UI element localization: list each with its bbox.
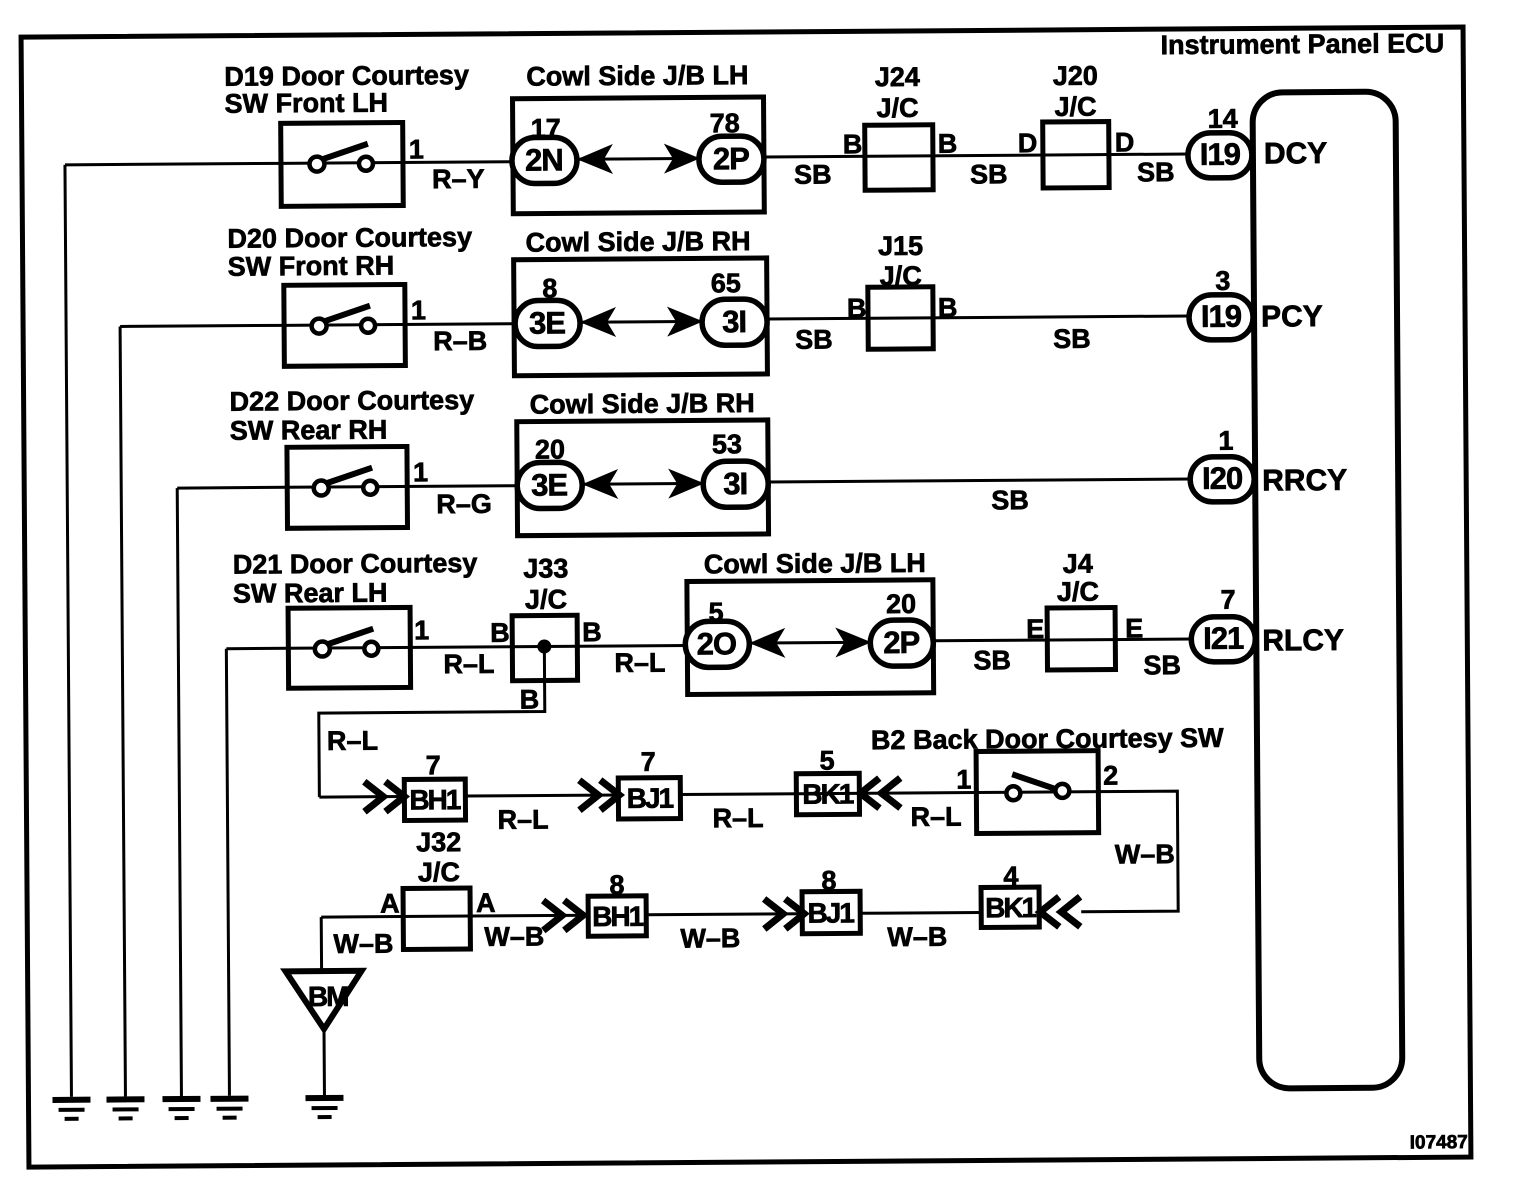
- svg-text:3I: 3I: [722, 304, 746, 339]
- svg-text:I20: I20: [1202, 461, 1242, 496]
- junction connector J32 box: [403, 888, 470, 949]
- svg-text:Cowl Side J/B RH: Cowl Side J/B RH: [530, 388, 755, 420]
- switch D20 box: [284, 284, 406, 366]
- svg-text:J24: J24: [875, 62, 920, 92]
- wire BJ1 to BK1 lower: [860, 911, 981, 915]
- svg-text:D22 Door Courtesy: D22 Door Courtesy: [230, 385, 475, 417]
- wire between 2O and 2P row4: [749, 641, 871, 645]
- connector BJ1 box R-L row: [618, 778, 680, 819]
- wire through B2: [976, 790, 1098, 794]
- wire left of J32 to BM drop: [321, 915, 590, 917]
- svg-text:SW Rear RH: SW Rear RH: [230, 415, 388, 446]
- switch D20 lever: [325, 306, 370, 321]
- junction block Cowl Side J/B RH row2 box: [514, 258, 768, 376]
- svg-text:PCY: PCY: [1261, 300, 1323, 333]
- svg-text:J/C: J/C: [418, 857, 460, 887]
- wire row1 left bus vertical to ground: [65, 165, 72, 1097]
- wire BM drop vertical: [320, 917, 323, 971]
- svg-text:2P: 2P: [713, 141, 749, 176]
- svg-text:R–L: R–L: [910, 802, 961, 832]
- switch D21 contact left: [315, 642, 330, 657]
- svg-text:3E: 3E: [529, 305, 565, 340]
- svg-text:7: 7: [641, 747, 656, 777]
- svg-text:W–B: W–B: [887, 922, 947, 952]
- switch B2 contact right: [1055, 784, 1069, 798]
- svg-text:Cowl Side J/B RH: Cowl Side J/B RH: [525, 226, 750, 258]
- ECU connector I21 oval: [1191, 617, 1255, 662]
- svg-text:1: 1: [1218, 426, 1233, 456]
- connector 2P oval row4: [870, 620, 933, 666]
- wire between 3E and 3I row3: [582, 482, 704, 486]
- wire row3 left bus horizontal: [177, 486, 287, 490]
- junction dot inside J33: [537, 639, 551, 653]
- svg-text:14: 14: [1208, 104, 1238, 134]
- svg-text:I07487: I07487: [1410, 1132, 1468, 1153]
- svg-text:B: B: [582, 617, 602, 647]
- svg-text:J/C: J/C: [1054, 92, 1096, 122]
- connector arrow right row1: [664, 143, 700, 173]
- svg-text:3I: 3I: [723, 466, 747, 501]
- ground G1: [52, 1100, 90, 1119]
- wire row1 through switch: [282, 162, 513, 164]
- connector arrow right row3: [668, 468, 704, 498]
- wire row4 from J/B to ECU: [933, 639, 1192, 641]
- inline connector chevrons after BK1 lower: [1040, 897, 1080, 927]
- svg-text:BH1: BH1: [409, 784, 461, 815]
- connector BK1 box R-L row: [796, 773, 859, 814]
- wire row3 through switch: [287, 486, 517, 488]
- wire from J33 down to back-door branch: [318, 647, 545, 798]
- wire between 3E and 3I row2: [580, 320, 703, 324]
- switch D21 lever: [328, 629, 373, 644]
- junction block Cowl Side J/B LH row1 box: [513, 97, 765, 214]
- inline connector chevrons before BJ1: [579, 780, 619, 810]
- switch D20 contact left: [312, 319, 327, 334]
- svg-text:W–B: W–B: [333, 929, 393, 959]
- svg-text:7: 7: [426, 750, 441, 780]
- svg-text:2: 2: [1103, 761, 1118, 791]
- inline connector chevrons after BK1: [860, 778, 900, 808]
- svg-text:1: 1: [414, 615, 429, 645]
- switch D20 contact right: [361, 319, 375, 333]
- svg-text:SW Front RH: SW Front RH: [228, 251, 395, 282]
- connector arrow right row2: [667, 306, 703, 336]
- junction connector J20 box: [1043, 122, 1109, 188]
- svg-text:1: 1: [413, 457, 428, 487]
- wire R-L row into BH1: [319, 795, 405, 799]
- wire BH1 to BJ1 lower: [646, 914, 803, 915]
- switch D22 box: [287, 446, 408, 528]
- connector 2P oval: [699, 136, 764, 182]
- svg-text:SW Front LH: SW Front LH: [224, 88, 388, 119]
- svg-text:W–B: W–B: [680, 923, 740, 953]
- svg-text:B: B: [843, 129, 863, 159]
- connector BK1 box W-B row: [981, 887, 1039, 927]
- wire row2 from J/B to ECU: [767, 316, 1190, 319]
- wire between 2N and 2P: [577, 157, 700, 161]
- svg-text:J15: J15: [878, 231, 923, 261]
- svg-text:BH1: BH1: [592, 901, 644, 932]
- wire row3 left bus vertical to ground: [177, 488, 181, 1096]
- ECU connector I19 pin 14 oval: [1188, 133, 1252, 178]
- svg-text:BJ1: BJ1: [627, 783, 674, 814]
- svg-text:J/C: J/C: [1057, 577, 1099, 607]
- svg-text:D: D: [1018, 128, 1038, 158]
- svg-text:3E: 3E: [531, 467, 567, 502]
- inline connector chevrons before BJ1 lower: [764, 899, 804, 929]
- svg-text:SB: SB: [794, 159, 832, 189]
- connector BH1 box R-L row: [404, 779, 465, 820]
- connector arrow left row1: [577, 144, 613, 174]
- svg-text:1: 1: [409, 134, 424, 164]
- connector BH1 box W-B row: [588, 896, 646, 936]
- svg-text:J/C: J/C: [876, 93, 918, 123]
- svg-text:53: 53: [712, 429, 742, 459]
- svg-text:BK1: BK1: [802, 778, 854, 809]
- wire BM triangle to ground: [322, 1029, 325, 1095]
- ground G5 BM: [305, 1098, 343, 1117]
- svg-text:A: A: [476, 888, 496, 918]
- junction connector J24 box: [865, 125, 933, 190]
- switch D19 contact left: [309, 157, 324, 172]
- svg-text:2N: 2N: [525, 142, 563, 177]
- svg-text:20: 20: [886, 589, 916, 619]
- wire row1 left bus horizontal: [65, 163, 282, 165]
- svg-text:1: 1: [956, 765, 971, 795]
- ECU connector I20 oval: [1190, 457, 1254, 502]
- junction connector J33 box: [512, 615, 577, 680]
- svg-text:SB: SB: [1053, 324, 1091, 354]
- switch D19 box: [281, 122, 404, 206]
- svg-text:J4: J4: [1063, 549, 1093, 579]
- wire row4 left bus horizontal: [226, 647, 288, 650]
- svg-text:D20 Door Courtesy: D20 Door Courtesy: [227, 222, 472, 254]
- wire row3 from J/B to ECU: [768, 479, 1191, 482]
- svg-text:J20: J20: [1053, 61, 1098, 91]
- wire row1 from J/B to ECU: [764, 154, 1189, 157]
- svg-text:W–B: W–B: [1115, 839, 1175, 869]
- junction connector J4 box: [1047, 608, 1115, 670]
- svg-text:1: 1: [411, 295, 426, 325]
- svg-text:D21 Door Courtesy: D21 Door Courtesy: [233, 548, 478, 580]
- connector arrow left row3: [582, 469, 618, 499]
- switch B2 lever: [1012, 774, 1055, 789]
- wire BJ1 to BK1: [680, 792, 976, 794]
- svg-text:J32: J32: [416, 827, 461, 857]
- ground G2: [106, 1099, 144, 1118]
- wire from B2 pin2 down to W-B row: [1080, 791, 1178, 912]
- svg-text:J33: J33: [523, 553, 568, 583]
- connector 2N oval: [512, 137, 577, 183]
- svg-text:R–L: R–L: [712, 803, 763, 833]
- ECU body U1: [1252, 92, 1402, 1089]
- switch B2 contact left: [1006, 786, 1020, 800]
- svg-text:Cowl Side J/B LH: Cowl Side J/B LH: [526, 60, 748, 92]
- switch D19 lever: [323, 144, 368, 159]
- svg-text:R–L: R–L: [497, 804, 548, 834]
- switch D19 contact right: [359, 157, 373, 171]
- svg-text:2P: 2P: [883, 625, 919, 660]
- ground G4: [210, 1099, 248, 1118]
- svg-text:R–Y: R–Y: [432, 164, 485, 194]
- inline connector chevrons before BH1 lower: [543, 900, 583, 930]
- switch D22 contact right: [363, 481, 377, 495]
- wire row4 left bus vertical to ground: [226, 649, 229, 1096]
- svg-text:SW Rear LH: SW Rear LH: [233, 578, 388, 609]
- wire row2 left bus vertical to ground: [120, 326, 125, 1096]
- switch D21 box: [288, 607, 411, 688]
- svg-text:I19: I19: [1200, 137, 1241, 172]
- connector 3I oval row2: [702, 299, 767, 345]
- svg-text:B: B: [938, 129, 958, 159]
- wire row2 left bus horizontal: [120, 325, 284, 326]
- svg-text:B: B: [490, 618, 510, 648]
- junction block Cowl Side J/B RH row3 box: [517, 420, 769, 536]
- svg-text:R–B: R–B: [433, 326, 487, 356]
- svg-text:I19: I19: [1201, 299, 1242, 334]
- svg-text:RLCY: RLCY: [1262, 624, 1344, 658]
- inline connector chevrons before BH1 row R-L: [364, 781, 404, 811]
- connector 3E oval row3: [517, 462, 582, 508]
- svg-text:SB: SB: [991, 485, 1029, 515]
- connector arrow right row4: [835, 627, 871, 657]
- svg-text:R–G: R–G: [436, 489, 492, 519]
- switch B2 box: [976, 751, 1099, 834]
- ground triangle BM: [286, 971, 362, 1030]
- svg-text:BK1: BK1: [985, 892, 1037, 923]
- connector arrow left row4: [749, 628, 785, 658]
- svg-text:B: B: [847, 293, 867, 323]
- svg-text:E: E: [1026, 614, 1044, 644]
- svg-text:R–L: R–L: [614, 648, 665, 678]
- svg-text:SB: SB: [970, 159, 1008, 189]
- svg-text:R–L: R–L: [327, 726, 378, 756]
- connector 3I oval row3: [703, 461, 768, 507]
- svg-text:SB: SB: [1143, 650, 1181, 680]
- switch D22 contact left: [314, 481, 329, 496]
- svg-text:3: 3: [1215, 266, 1230, 296]
- svg-text:B: B: [938, 293, 958, 323]
- svg-text:7: 7: [1220, 585, 1235, 615]
- svg-text:SB: SB: [973, 645, 1011, 675]
- connector 3E oval row2: [515, 300, 580, 346]
- svg-text:Cowl Side J/B LH: Cowl Side J/B LH: [704, 548, 926, 580]
- wire row4 through switch to J33: [288, 646, 687, 649]
- svg-text:BJ1: BJ1: [807, 897, 854, 928]
- switch D21 contact right: [364, 642, 378, 656]
- svg-text:I21: I21: [1203, 621, 1244, 656]
- svg-text:SB: SB: [1137, 157, 1175, 187]
- connector 2O oval: [685, 621, 749, 667]
- junction connector J15 box: [868, 287, 933, 349]
- svg-text:W–B: W–B: [484, 922, 544, 952]
- svg-text:65: 65: [711, 268, 741, 298]
- svg-text:RRCY: RRCY: [1262, 464, 1347, 498]
- svg-text:Instrument Panel ECU: Instrument Panel ECU: [1160, 28, 1444, 60]
- svg-text:R–L: R–L: [443, 649, 494, 679]
- switch D22 lever: [327, 468, 372, 483]
- svg-text:J/C: J/C: [525, 584, 567, 614]
- svg-text:E: E: [1125, 613, 1143, 643]
- connector arrow left row2: [580, 307, 616, 337]
- svg-text:DCY: DCY: [1264, 137, 1328, 170]
- wire row2 through switch: [284, 324, 514, 326]
- svg-text:2O: 2O: [697, 626, 737, 661]
- svg-text:D: D: [1115, 127, 1135, 157]
- ECU connector I19 pin 3 oval: [1189, 295, 1253, 340]
- svg-text:BM: BM: [308, 981, 348, 1012]
- wire BH1 to BJ1: [465, 795, 619, 796]
- svg-text:SB: SB: [795, 324, 833, 354]
- junction block Cowl Side J/B LH row4 box: [687, 580, 934, 695]
- ground G3: [162, 1099, 200, 1118]
- connector BJ1 box W-B row: [802, 891, 860, 933]
- svg-text:A: A: [380, 889, 400, 919]
